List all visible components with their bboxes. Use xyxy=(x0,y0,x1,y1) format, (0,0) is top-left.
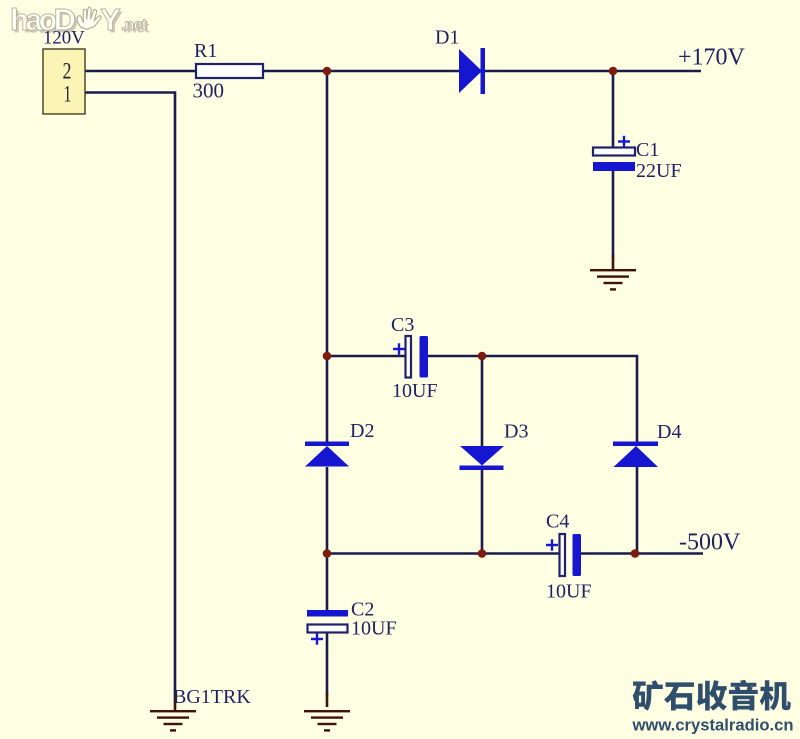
svg-text:www.crystalradio.cn: www.crystalradio.cn xyxy=(632,716,794,735)
svg-text:D1: D1 xyxy=(435,27,459,49)
svg-text:10UF: 10UF xyxy=(546,581,592,603)
svg-text:C1: C1 xyxy=(636,139,659,161)
svg-text:Y: Y xyxy=(100,2,121,37)
svg-text:.net: .net xyxy=(121,17,148,34)
svg-text:-500V: -500V xyxy=(679,530,741,556)
svg-text:BG1TRK: BG1TRK xyxy=(173,686,251,708)
svg-text:+170V: +170V xyxy=(678,45,746,71)
svg-text:10UF: 10UF xyxy=(351,618,397,640)
svg-text:D3: D3 xyxy=(504,421,528,443)
svg-text:C4: C4 xyxy=(546,511,569,533)
svg-text:R1: R1 xyxy=(194,40,217,62)
svg-text:120V: 120V xyxy=(43,28,85,49)
svg-text:C3: C3 xyxy=(391,314,414,336)
svg-text:D4: D4 xyxy=(657,421,681,443)
svg-text:2: 2 xyxy=(63,59,72,84)
svg-text:10UF: 10UF xyxy=(392,380,438,402)
svg-text:22UF: 22UF xyxy=(636,160,682,182)
svg-text:1: 1 xyxy=(64,82,72,107)
svg-text:D2: D2 xyxy=(350,420,374,442)
svg-text:300: 300 xyxy=(193,79,225,103)
